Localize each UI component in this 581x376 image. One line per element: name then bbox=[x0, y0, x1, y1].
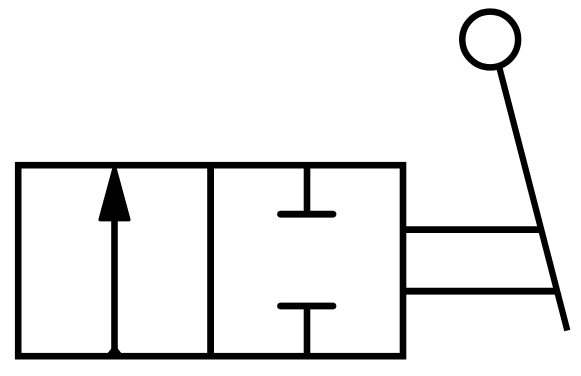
flow arrow tail flare bbox=[108, 346, 121, 354]
flow arrow stem (left position) bbox=[111, 218, 118, 356]
valve body outline (2-position box) bbox=[18, 165, 403, 356]
lever linkage upper bar bbox=[403, 226, 544, 233]
lever rod bbox=[499, 66, 568, 331]
position divider line bbox=[207, 162, 214, 359]
flow arrow head bbox=[100, 167, 129, 220]
blocked port symbol, top T (right position) bbox=[304, 164, 311, 214]
blocked port symbol, bottom T (right position) bbox=[304, 306, 311, 357]
lever linkage lower bar bbox=[403, 288, 559, 295]
lever knob ball bbox=[462, 12, 518, 68]
